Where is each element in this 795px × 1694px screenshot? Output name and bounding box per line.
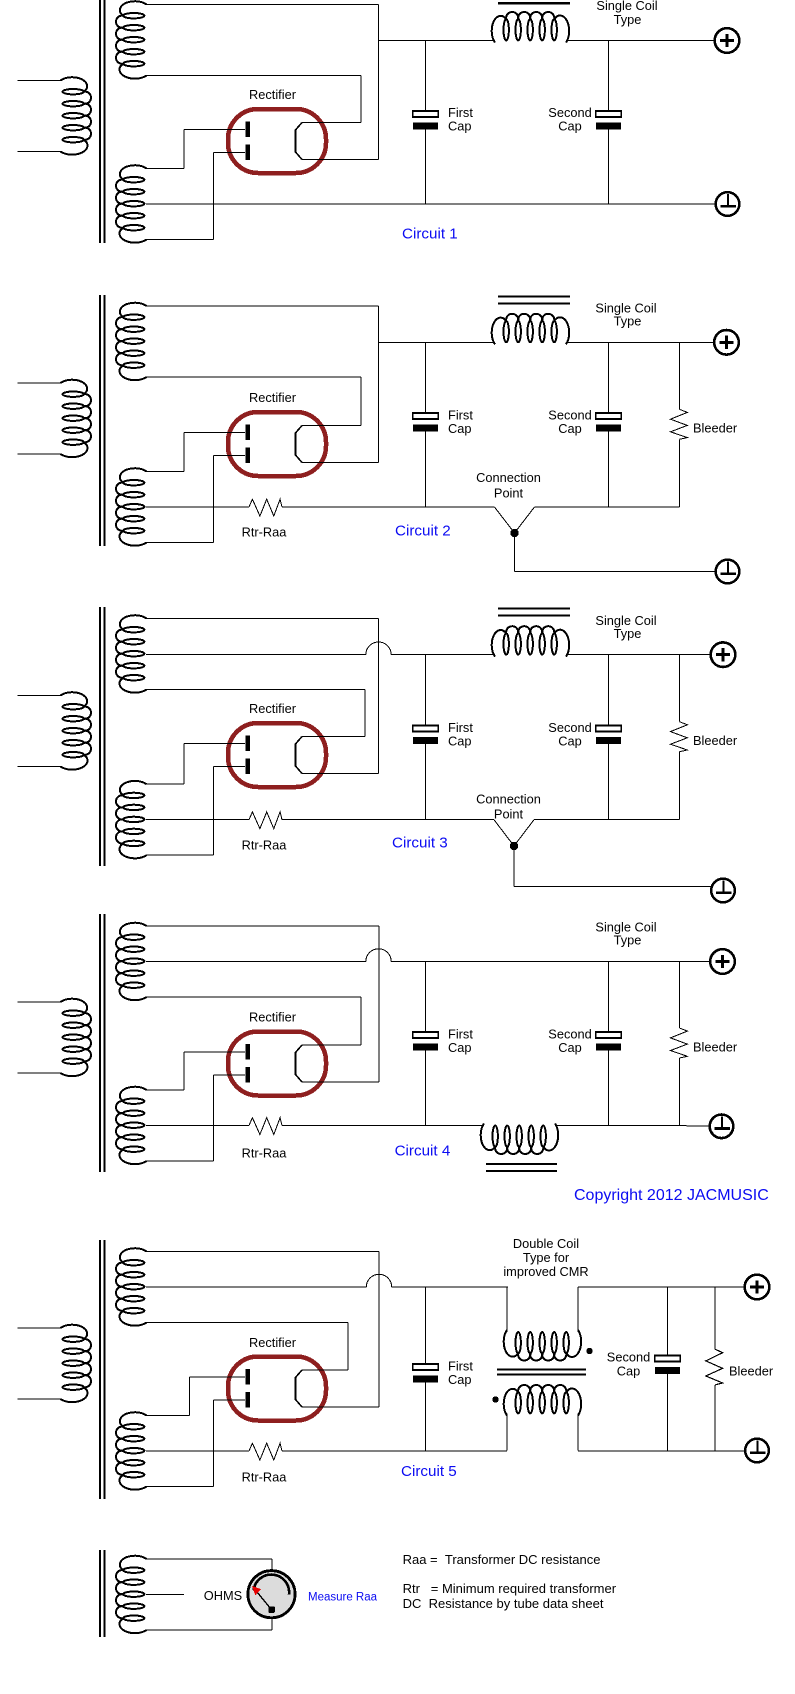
- C5 polarity dot lower: [492, 1396, 498, 1402]
- C2 wire connection diagonal left: [495, 507, 515, 533]
- C3 wire plate 2 vertical: [213, 767, 215, 856]
- C1 transformer core: [100, 0, 105, 243]
- C5 wire second cap top: [667, 1287, 669, 1356]
- C5 wire upper coil right vertical: [577, 1287, 579, 1332]
- C2 wire heater top lead: [146, 305, 379, 307]
- C2 connection point node: [510, 529, 518, 537]
- C3 wire connection drop: [513, 846, 515, 887]
- C1 B+ output terminal: [715, 28, 740, 53]
- C1 wire heater bottom lead: [146, 75, 361, 77]
- C5 wire heater top lead: [146, 1251, 379, 1253]
- svg-text:Second: Second: [607, 1350, 650, 1365]
- C4 wire HV top lead: [146, 1089, 184, 1091]
- C2 transformer HV winding: [116, 468, 147, 545]
- C5 wire ground rail to terminal: [578, 1450, 745, 1452]
- C2 wire filament top lead: [302, 425, 361, 427]
- C1 capacitor Second Cap: [596, 111, 621, 130]
- C2 wire bleeder top: [679, 342, 681, 409]
- C4 wire second cap bottom: [608, 1051, 610, 1126]
- C2 wire B+ rail to terminal: [566, 341, 714, 343]
- C5 double coil upper winding: [504, 1330, 581, 1361]
- C5 ground terminal: [745, 1439, 769, 1463]
- C2 wire primary top lead: [18, 382, 62, 384]
- C2 wire to connection point: [282, 506, 495, 508]
- C3 wire first cap top: [425, 655, 427, 726]
- C5 transformer HV winding: [116, 1412, 147, 1489]
- svg-text:Cap: Cap: [448, 421, 471, 436]
- C4 resistor Rtr-Raa: [249, 1118, 282, 1135]
- svg-text:Cap: Cap: [558, 734, 581, 749]
- C1 wire HV bottom lead: [146, 239, 214, 241]
- C5 wire heater bottom lead: [146, 1322, 348, 1324]
- C4 capacitor First Cap: [413, 1032, 438, 1051]
- wire winding top to meter: [146, 1558, 272, 1560]
- C3 filter choke: [492, 626, 569, 657]
- C4 wire first cap top: [425, 962, 427, 1033]
- C5 wire bleeder top: [714, 1287, 716, 1349]
- C4 wire heater to filament-bottom vertical: [378, 926, 380, 1082]
- C4 wire plate 1 lead: [184, 1051, 245, 1053]
- C1 wire primary top lead: [18, 80, 62, 82]
- C5 wire plate 1 lead: [190, 1376, 245, 1378]
- C3 wire second cap bottom: [608, 744, 610, 820]
- C3 wire connection diagonal right: [514, 820, 534, 846]
- C5 wire B+ rail to terminal: [578, 1286, 745, 1288]
- svg-text:Bleeder: Bleeder: [729, 1364, 774, 1379]
- C2 wire second cap bottom: [608, 432, 610, 508]
- C1 transformer heater winding: [116, 1, 147, 78]
- wire winding center tap stub: [146, 1594, 184, 1596]
- svg-text:Type: Type: [614, 626, 642, 641]
- svg-text:Cap: Cap: [448, 1040, 471, 1055]
- C1 wire filament bottom lead: [302, 159, 379, 161]
- C3 wire heater to filament-bottom vertical: [378, 619, 380, 774]
- C2 wire first cap bottom: [425, 432, 427, 508]
- C4 capacitor Second Cap: [596, 1032, 621, 1051]
- C3 transformer heater winding with center tap: [116, 615, 147, 692]
- svg-text:Type for: Type for: [523, 1250, 570, 1265]
- svg-text:Rtr-Raa: Rtr-Raa: [242, 1470, 288, 1485]
- C5 transformer heater winding with center tap: [116, 1248, 147, 1325]
- C4 wire bleeder top: [679, 962, 681, 1029]
- svg-text:Connection: Connection: [476, 792, 541, 807]
- C3 wire HV center tap: [146, 819, 249, 821]
- C2 ground terminal: [716, 560, 740, 584]
- C3 wire B+ rail to choke: [391, 654, 495, 656]
- C5 polarity dot upper: [586, 1348, 592, 1354]
- C3 wire HV bottom lead: [146, 854, 214, 856]
- C2 wire connection diagonal right: [515, 507, 535, 533]
- svg-text:Bleeder: Bleeder: [693, 421, 738, 436]
- C2 wire connection drop: [514, 533, 516, 572]
- C3 capacitor Second Cap: [596, 726, 621, 745]
- C5 transformer primary winding: [61, 1325, 92, 1402]
- svg-text:Cap: Cap: [448, 734, 471, 749]
- svg-text:Cap: Cap: [448, 119, 471, 134]
- C1 wire primary bottom lead: [18, 151, 62, 153]
- C1 wire second cap top: [608, 41, 610, 112]
- C2 resistor Bleeder: [671, 409, 688, 439]
- C4 wire crossover hop: [366, 949, 391, 962]
- C4 wire second cap top: [608, 962, 610, 1033]
- C3 wire second cap top: [608, 655, 610, 726]
- C2 wire HV center tap: [146, 506, 249, 508]
- svg-text:DC Resistance by tube data sh: DC Resistance by tube data sheet: [403, 1596, 604, 1611]
- C3 transformer primary winding: [61, 692, 92, 769]
- C2 rectifier tube: [228, 412, 326, 476]
- svg-text:Rtr-Raa: Rtr-Raa: [242, 838, 288, 853]
- svg-text:Circuit 3: Circuit 3: [392, 835, 448, 852]
- C3 wire heater bottom lead: [146, 689, 365, 691]
- C1 wire B+ rail to terminal: [566, 40, 715, 42]
- C5 wire bleeder bottom: [714, 1385, 716, 1451]
- C1 wire ground rail: [146, 203, 715, 205]
- C2 B+ output terminal: [714, 330, 739, 355]
- svg-text:Cap: Cap: [558, 1040, 581, 1055]
- C3 wire B+ rail from center tap: [146, 654, 366, 656]
- C3 wire HV top lead: [146, 783, 184, 785]
- svg-text:Rectifier: Rectifier: [249, 1010, 297, 1025]
- C3 capacitor First Cap: [413, 726, 438, 745]
- C3 B+ output terminal: [711, 642, 736, 667]
- C1 wire heater to filament-top vertical: [360, 76, 362, 123]
- svg-text:Type: Type: [614, 314, 642, 329]
- C3 wire filament bottom lead: [302, 773, 379, 775]
- C3 wire primary top lead: [18, 695, 62, 697]
- svg-text:Rectifier: Rectifier: [249, 390, 297, 405]
- C4 wire plate 2 lead: [214, 1074, 246, 1076]
- C1 wire plate 1 lead: [184, 129, 245, 131]
- C3 wire plate 1 lead: [184, 743, 245, 745]
- C5 wire plate 1 vertical: [189, 1377, 191, 1416]
- C5 wire HV bottom lead: [146, 1486, 214, 1488]
- svg-text:Cap: Cap: [558, 119, 581, 134]
- C5 double coil core lines: [497, 1370, 586, 1375]
- C3 rectifier tube: [228, 723, 326, 787]
- svg-text:Double Coil: Double Coil: [513, 1236, 579, 1251]
- C5 capacitor First Cap: [413, 1364, 438, 1383]
- C1 wire filament top lead: [302, 122, 361, 124]
- C5 wire heater to filament-bottom vertical: [378, 1252, 380, 1408]
- C5 wire upper coil left vertical: [506, 1287, 508, 1332]
- C3 transformer core: [100, 607, 105, 866]
- C3 wire primary bottom lead: [18, 766, 62, 768]
- C3 ground terminal: [711, 879, 735, 903]
- C1 rectifier tube: [228, 109, 326, 173]
- svg-text:Circuit 4: Circuit 4: [395, 1143, 451, 1160]
- C3 wire to connection point: [282, 819, 494, 821]
- C1 wire plate 2 lead: [214, 152, 246, 154]
- C4 ground terminal: [710, 1115, 734, 1139]
- svg-text:Circuit 1: Circuit 1: [402, 226, 458, 243]
- C4 filter choke in ground rail: [481, 1124, 558, 1155]
- C5 wire filament bottom lead: [302, 1406, 379, 1408]
- C2 wire bleeder bottom: [679, 439, 681, 507]
- C4 wire heater top lead: [146, 925, 379, 927]
- C4 wire ground rail to choke: [282, 1125, 484, 1127]
- C3 wire first cap bottom: [425, 744, 427, 820]
- C5 wire first cap bottom: [425, 1383, 427, 1452]
- C2 filter choke: [492, 314, 569, 345]
- C3 wire filament top lead: [302, 736, 365, 738]
- C1 ground terminal: [716, 192, 740, 216]
- C3 wire ground run: [514, 886, 713, 888]
- C1 wire second cap bottom: [608, 130, 610, 205]
- svg-text:improved CMR: improved CMR: [503, 1264, 588, 1279]
- C1 transformer primary winding: [61, 77, 92, 154]
- C5 wire plate 2 lead: [214, 1399, 246, 1401]
- C1 wire plate 1 vertical: [183, 130, 185, 169]
- C1 wire first cap top: [425, 41, 427, 112]
- wire winding bottom to meter: [146, 1629, 272, 1631]
- C4 wire primary top lead: [18, 1001, 62, 1003]
- C1 wire HV top lead: [146, 168, 184, 170]
- wire meter bottom vertical: [271, 1618, 273, 1630]
- C3 wire connection to bleeder: [534, 819, 680, 821]
- svg-text:Copyright 2012 JACMUSIC: Copyright 2012 JACMUSIC: [574, 1187, 769, 1204]
- C2 transformer primary winding: [61, 380, 92, 457]
- C3 connection point node: [510, 842, 518, 850]
- C3 wire bleeder bottom: [679, 752, 681, 820]
- C1 transformer HV winding: [116, 165, 147, 242]
- C5 wire lower coil right vertical: [577, 1414, 579, 1451]
- C5 wire B+ rail from center tap: [146, 1286, 366, 1288]
- C5 wire ground rail to coil: [282, 1450, 507, 1452]
- meter section transformer core: [100, 1550, 105, 1637]
- svg-text:Type: Type: [614, 933, 642, 948]
- C5 wire HV center tap: [146, 1450, 249, 1452]
- C4 transformer HV winding: [116, 1087, 147, 1164]
- C1 capacitor First Cap: [413, 111, 438, 130]
- C2 wire primary bottom lead: [18, 453, 62, 455]
- svg-text:Bleeder: Bleeder: [693, 733, 738, 748]
- C5 transformer core: [100, 1240, 105, 1499]
- svg-text:Rectifier: Rectifier: [249, 87, 297, 102]
- C5 wire primary top lead: [18, 1327, 62, 1329]
- C5 resistor Rtr-Raa: [249, 1443, 282, 1460]
- svg-text:Cap: Cap: [617, 1364, 640, 1379]
- C5 wire crossover hop: [366, 1274, 391, 1287]
- C5 wire B+ rail to double coil: [392, 1286, 508, 1288]
- C2 wire HV top lead: [146, 471, 184, 473]
- C3 wire heater top lead: [146, 618, 379, 620]
- C5 B+ output terminal: [745, 1275, 770, 1300]
- C1 wire heater top lead: [146, 4, 379, 6]
- C5 wire HV top lead: [146, 1415, 190, 1417]
- C2 wire plate 2 lead: [214, 455, 246, 457]
- C3 transformer HV winding: [116, 781, 147, 858]
- svg-text:Rtr-Raa: Rtr-Raa: [242, 525, 288, 540]
- C4 transformer core: [100, 914, 105, 1172]
- C5 wire primary bottom lead: [18, 1398, 62, 1400]
- C5 resistor Bleeder: [706, 1349, 723, 1385]
- C4 wire heater bottom lead: [146, 996, 361, 998]
- svg-text:Point: Point: [494, 486, 524, 501]
- svg-text:Rectifier: Rectifier: [249, 1335, 297, 1350]
- C4 wire primary bottom lead: [18, 1072, 62, 1074]
- C1 wire plate 2 vertical: [213, 153, 215, 240]
- svg-text:Cap: Cap: [558, 421, 581, 436]
- C3 resistor Bleeder: [671, 722, 688, 752]
- svg-text:Circuit 2: Circuit 2: [395, 523, 451, 540]
- C3 wire plate 1 vertical: [183, 744, 185, 785]
- svg-text:Rectifier: Rectifier: [249, 701, 297, 716]
- C4 wire B+ rail to terminal: [391, 961, 710, 963]
- C4 wire plate 2 vertical: [213, 1075, 215, 1161]
- svg-text:Raa = Transformer DC resistan: Raa = Transformer DC resistance: [403, 1552, 601, 1567]
- C4 choke core lines: [486, 1164, 557, 1171]
- C3 wire bleeder top: [679, 655, 681, 722]
- svg-text:Measure Raa: Measure Raa: [308, 1592, 378, 1604]
- C2 wire heater bottom lead: [146, 376, 361, 378]
- C5 wire lower coil left vertical: [506, 1414, 508, 1451]
- C2 wire connection to bleeder: [535, 506, 680, 508]
- C2 wire first cap top: [425, 342, 427, 413]
- svg-text:Rtr-Raa: Rtr-Raa: [242, 1146, 288, 1161]
- wire meter top vertical: [271, 1559, 273, 1571]
- C2 resistor Rtr-Raa: [249, 499, 282, 516]
- C5 wire plate 2 vertical: [213, 1400, 215, 1487]
- C4 wire ground rail to terminal: [555, 1125, 710, 1127]
- C5 wire second cap bottom: [667, 1374, 669, 1451]
- C1 filter choke: [492, 12, 569, 43]
- svg-text:Bleeder: Bleeder: [693, 1040, 738, 1055]
- C4 wire HV center tap: [146, 1125, 249, 1127]
- C1 wire heater/B+ vertical: [378, 5, 380, 160]
- svg-text:Type: Type: [614, 12, 642, 27]
- C4 transformer primary winding: [61, 999, 92, 1076]
- C4 B+ output terminal: [710, 949, 735, 974]
- ohmmeter dial: [248, 1571, 295, 1618]
- C3 resistor Rtr-Raa: [249, 812, 282, 829]
- C2 transformer core: [100, 295, 105, 546]
- C4 wire heater to filament-top vertical: [360, 997, 362, 1045]
- C5 wire filament top lead: [302, 1369, 348, 1371]
- svg-text:Circuit 5: Circuit 5: [401, 1463, 457, 1480]
- svg-text:OHMS: OHMS: [204, 1588, 242, 1603]
- C4 rectifier tube: [228, 1032, 326, 1096]
- C5 capacitor Second Cap: [655, 1356, 680, 1375]
- C3 choke core lines: [498, 609, 570, 616]
- C5 wire first cap top: [425, 1287, 427, 1364]
- C4 wire plate 1 vertical: [183, 1052, 185, 1090]
- C2 wire second cap top: [608, 342, 610, 413]
- C1 choke core line: [498, 2, 570, 5]
- C2 wire plate 2 vertical: [213, 456, 215, 543]
- C3 wire plate 2 lead: [214, 766, 246, 768]
- C4 resistor Bleeder: [671, 1028, 688, 1058]
- C3 wire crossover hop: [366, 642, 391, 655]
- C4 wire filament top lead: [302, 1044, 361, 1046]
- C1 wire B+ rail to choke: [379, 40, 496, 42]
- C3 wire B+ rail to terminal: [566, 654, 711, 656]
- C4 wire filament bottom lead: [302, 1081, 379, 1083]
- C4 wire B+ rail from center tap: [146, 961, 366, 963]
- C2 wire B+ rail to choke: [379, 341, 496, 343]
- meter section HV winding: [116, 1556, 147, 1633]
- C4 transformer heater winding with center tap: [116, 923, 147, 1000]
- C2 wire heater to filament-top vertical: [360, 377, 362, 426]
- C5 double coil lower winding: [504, 1385, 581, 1416]
- C2 wire heater/B+ vertical: [378, 306, 380, 463]
- C2 wire plate 1 lead: [184, 432, 245, 434]
- C4 wire first cap bottom: [425, 1051, 427, 1126]
- C4 wire HV bottom lead: [146, 1160, 214, 1162]
- C3 wire connection diagonal left: [494, 820, 514, 846]
- C2 wire HV bottom lead: [146, 542, 214, 544]
- C2 transformer heater winding: [116, 303, 147, 380]
- C5 wire heater to filament-top vertical: [347, 1323, 349, 1371]
- svg-text:Point: Point: [494, 807, 524, 822]
- C4 wire bleeder bottom: [679, 1058, 681, 1126]
- C3 wire heater to filament-top vertical: [364, 690, 366, 737]
- C2 capacitor First Cap: [413, 413, 438, 432]
- C1 wire first cap bottom: [425, 130, 427, 205]
- C2 wire filament bottom lead: [302, 462, 379, 464]
- C2 wire ground run: [515, 571, 716, 573]
- C2 wire plate 1 vertical: [183, 433, 185, 472]
- svg-text:Rtr = Minimum required trans: Rtr = Minimum required transformer: [403, 1581, 617, 1596]
- C2 choke core lines: [498, 297, 570, 304]
- C2 capacitor Second Cap: [596, 413, 621, 432]
- svg-text:Cap: Cap: [448, 1372, 471, 1387]
- C5 rectifier tube: [228, 1357, 326, 1421]
- svg-text:Connection: Connection: [476, 470, 541, 485]
